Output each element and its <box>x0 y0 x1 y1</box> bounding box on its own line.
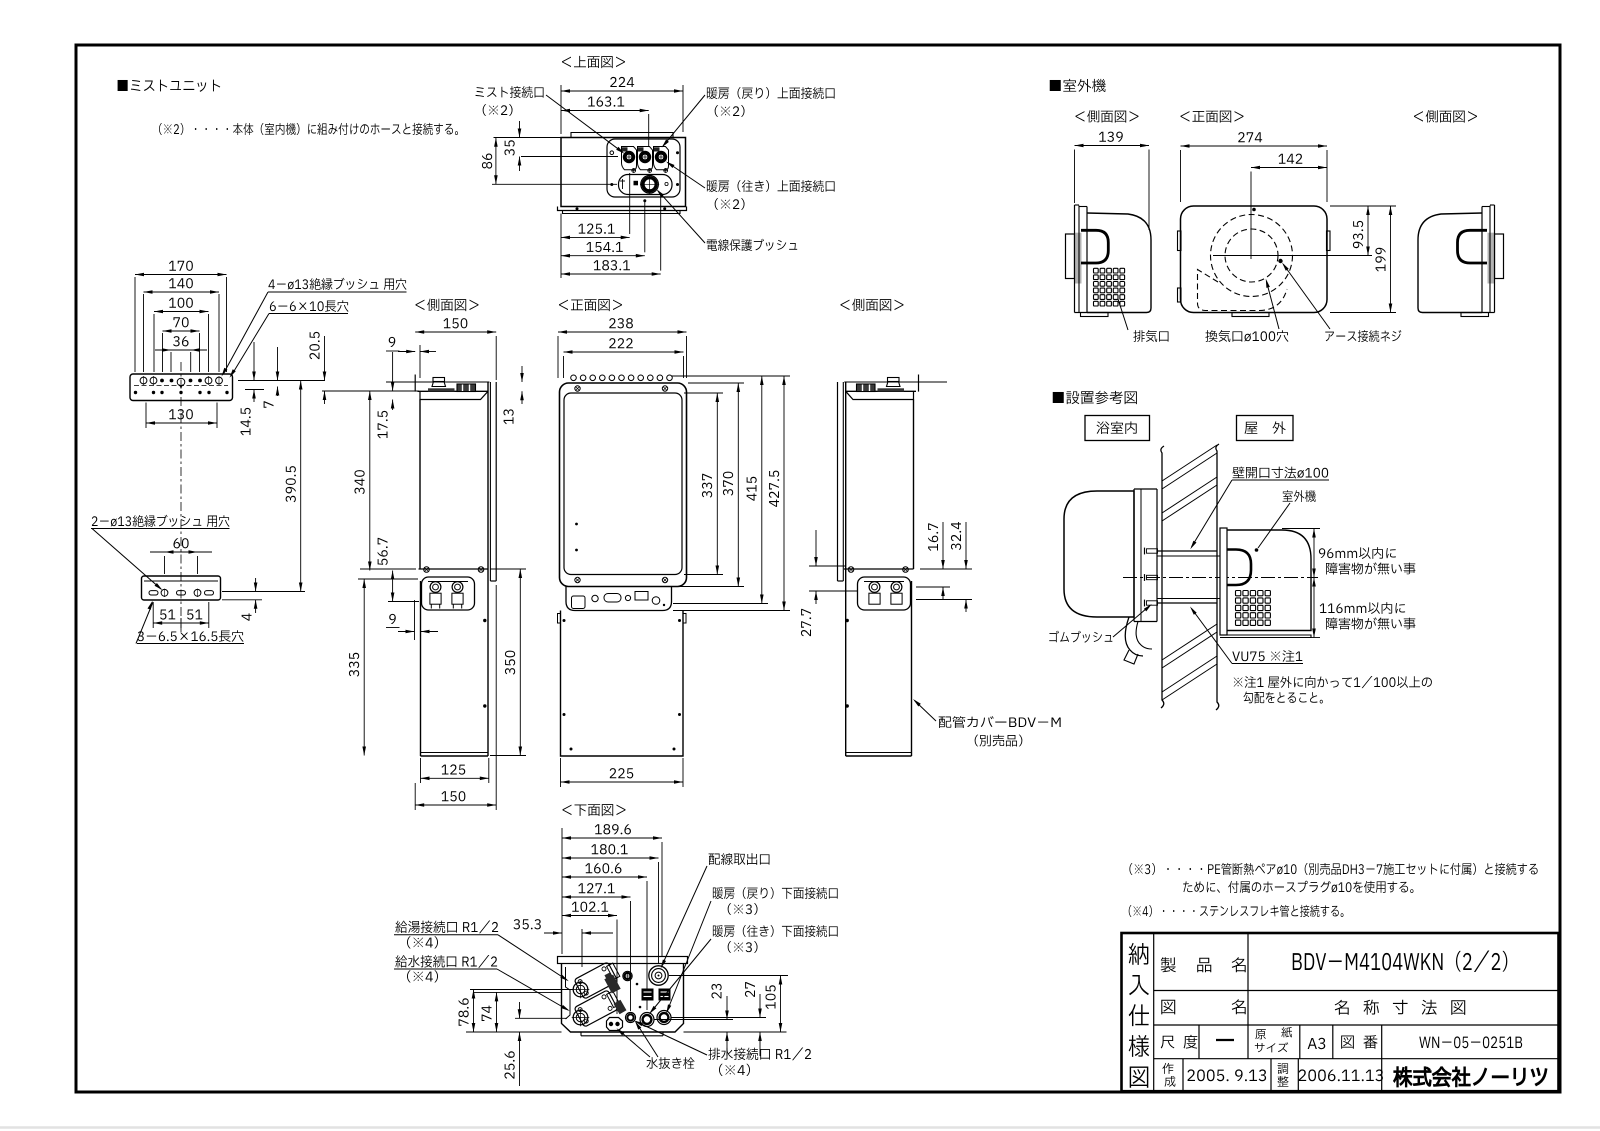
dim 56.7 <box>392 571 394 602</box>
black square ports (heater) <box>642 989 654 1001</box>
outdoor left body outline <box>1087 213 1151 313</box>
title block left strip divider <box>1153 933 1155 1091</box>
value: name and dimensions drawing <box>1335 1000 1349 1015</box>
outdoor left wall tab <box>1066 234 1075 279</box>
scanner edge line at page bottom <box>0 1126 1600 1129</box>
bracket top-view body <box>130 374 233 401</box>
label: drawing number <box>1341 1035 1354 1048</box>
label hot water connection R1/2 (*4) <box>395 921 498 934</box>
label wall opening size dia100 <box>1232 467 1328 479</box>
dim 7 <box>277 347 279 381</box>
extension line to 390.5 dim <box>222 591 305 593</box>
side view body top plate <box>418 390 489 392</box>
note (*2): connect to hose fitted to main indoor unit <box>159 123 458 135</box>
label: drawing name <box>1161 1000 1175 1015</box>
box label: inside bathroom <box>1085 416 1150 441</box>
front cover side bumps and screws <box>558 614 561 624</box>
section header: installation reference <box>1053 391 1137 404</box>
front bottom cover <box>561 611 684 757</box>
label drain connection R1/2 (*4) <box>708 1048 811 1061</box>
mist unit back plate <box>1133 489 1135 622</box>
note 1 text <box>1234 676 1432 688</box>
bottom dim extension lines <box>561 828 563 954</box>
drain plug hex <box>607 1018 623 1031</box>
dim 20.5 <box>324 336 326 381</box>
value: product name BDV-M4104WKN(2/2) <box>1293 950 1508 972</box>
lower bracket slots and holes <box>149 591 158 595</box>
right side rear rail <box>842 382 844 581</box>
outdoor unit in reference - back plate <box>1220 528 1227 635</box>
bottom view flange <box>558 957 688 964</box>
leader wire bushing <box>658 191 705 243</box>
outdoor front foot <box>1232 313 1269 317</box>
label earth connection screw <box>1325 330 1401 342</box>
outdoor front side tabs <box>1178 231 1182 251</box>
outdoor right foot <box>1461 313 1489 317</box>
front corner screws <box>575 386 580 391</box>
label vent opening dia 100 hole <box>1205 330 1288 342</box>
dim 14.5 <box>253 342 255 381</box>
label: heater supply top connection (*2) <box>707 180 835 192</box>
outdoor unit in reference - body <box>1227 530 1311 631</box>
outdoor right wall plate with gray edge <box>1488 233 1495 284</box>
bottom left extension lines <box>470 989 573 991</box>
bottom dim 102.1 <box>562 915 617 917</box>
bracket dim 100 <box>154 311 209 313</box>
value: A3 <box>1308 1038 1326 1049</box>
front dim 427.5 <box>783 376 785 611</box>
VU75 pipe <box>1157 555 1220 557</box>
title block row3 dividers <box>1198 1025 1200 1059</box>
fan scroll volute dashed outline <box>1198 270 1288 311</box>
top view face plate <box>607 139 680 197</box>
dim 25.6 <box>519 1002 521 1018</box>
pipe cover screws <box>483 619 486 622</box>
bracket fold dashed line <box>134 385 228 387</box>
hot water valve assembly <box>574 960 621 999</box>
dim 125.1 <box>561 236 630 238</box>
outdoor left wall plate with gray edge <box>1075 233 1082 284</box>
wall section right edge <box>1216 444 1219 710</box>
mist unit body (in wall section) <box>1064 491 1134 617</box>
dim 163.1 <box>561 110 649 112</box>
right side body outline upper <box>846 391 914 399</box>
right side body top plate <box>846 390 916 392</box>
dim 86 vertical <box>495 138 497 185</box>
top connector (cable) <box>457 384 476 392</box>
label: mist connection port (*2) <box>476 86 544 98</box>
mist connector dark block <box>603 971 621 993</box>
front dim 337 <box>716 393 718 575</box>
wiring outlet port (large double circle) <box>649 966 668 985</box>
bottom dim 189.6 <box>562 837 662 839</box>
front dim 222 <box>564 351 684 353</box>
bottom view title <box>562 804 625 816</box>
small port left of wiring outlet <box>623 971 632 980</box>
dim 390.5 <box>300 381 302 592</box>
dim 154.1 <box>561 255 645 257</box>
right side plate right lip <box>918 375 920 392</box>
dim 224 top width <box>561 90 683 92</box>
outdoor right handle <box>1458 230 1488 263</box>
right side dim 27.7 <box>815 530 817 566</box>
label VU75 note1 <box>1232 650 1302 662</box>
dim 335 <box>363 579 365 756</box>
label: heater return top connection (*2) <box>707 87 835 99</box>
title block vertical divider rows1-2 <box>1247 933 1249 1059</box>
dim 150 bottom <box>415 804 496 806</box>
reference line bracket to side view (lower) <box>322 390 419 392</box>
cable protection bushing port <box>641 176 659 194</box>
outdoor left foot <box>1081 313 1109 317</box>
dim 9 lower <box>389 614 396 624</box>
bottom ports row <box>626 1013 636 1023</box>
cold water valve assembly <box>574 988 621 1027</box>
outdoor unit in reference - grille <box>1236 591 1241 596</box>
outdoor dim 274 <box>1181 145 1328 147</box>
value: WN-05-0251B <box>1419 1036 1522 1048</box>
label: original paper size <box>1255 1029 1265 1039</box>
lower bracket dim 51+51 <box>153 622 209 624</box>
label wiring outlet <box>709 853 770 865</box>
cold water port circle <box>573 1010 588 1025</box>
outdoor right body outline <box>1418 213 1482 313</box>
front small dots <box>575 523 578 526</box>
label 3-6.5x16.5 slots <box>138 630 244 642</box>
value: creation date <box>1187 1069 1266 1081</box>
dim 35 vertical <box>519 121 521 138</box>
label: created <box>1162 1063 1173 1074</box>
bottom view inner step <box>566 967 571 1019</box>
bottom dim 127.1 <box>562 896 631 898</box>
bracket dim 130 <box>146 422 217 424</box>
front dim 415 <box>761 376 763 604</box>
bottom dim 160.6 <box>562 876 647 878</box>
label cold water connection R1/2 (*4) <box>395 955 497 968</box>
flange screws <box>424 567 430 573</box>
outdoor dim 142 <box>1251 167 1327 169</box>
title block outer frame <box>1122 933 1559 1091</box>
pipe connector block <box>422 577 475 610</box>
top view body outline <box>561 138 686 207</box>
title block row lines <box>1154 990 1559 992</box>
dim 125 bottom <box>421 777 489 779</box>
top view rear plate <box>571 133 673 138</box>
bottom dim 35.3 <box>544 932 562 934</box>
leader to mist port <box>546 95 623 152</box>
bracket lower hole dots <box>134 391 137 394</box>
pipe cover (lower body) <box>420 581 422 756</box>
outdoor right wall tab <box>1495 234 1504 279</box>
outdoor left side view title <box>1075 110 1138 122</box>
bottom right extension lines <box>669 975 788 977</box>
outdoor unit in reference - bottom plate <box>1220 635 1311 638</box>
lower bracket dim 60 <box>150 551 212 553</box>
front inner panel <box>564 393 682 575</box>
label: wire protection bushing <box>707 239 797 251</box>
label: adjusted <box>1278 1063 1289 1074</box>
left side view title <box>415 299 478 311</box>
label outdoor unit <box>1283 490 1316 502</box>
bottom dim 180.1 <box>562 857 659 859</box>
duct hole through wall <box>1157 550 1217 552</box>
mounting bolts <box>1147 549 1158 553</box>
dim 183.1 <box>561 273 661 275</box>
outdoor left handle <box>1081 230 1108 263</box>
side view body outline upper <box>420 391 488 399</box>
dim 96mm clearance <box>1313 529 1315 578</box>
bracket dim 140 <box>144 291 220 293</box>
front lower connection band <box>566 587 672 611</box>
outdoor right side view title <box>1414 110 1477 122</box>
note (*3) <box>1129 863 1537 875</box>
screw dots on face plate <box>610 151 614 155</box>
note (*4) <box>1129 905 1344 917</box>
bracket holes row <box>140 377 147 384</box>
company name: Noritz Corporation <box>1394 1067 1547 1087</box>
dim 105 <box>780 976 782 1033</box>
outdoor front body <box>1181 206 1328 313</box>
label heater return bottom connection (*3) <box>713 887 838 899</box>
small black square marker <box>634 181 639 186</box>
leader heater supply <box>668 163 706 189</box>
bracket centerline <box>180 362 182 632</box>
label 2-dia13 bushing holes <box>92 515 230 527</box>
right side wall bracket plate line <box>844 381 947 383</box>
vertical text: delivery specification drawing <box>1129 943 1149 965</box>
front dim 225 <box>561 781 684 783</box>
side view rear rail <box>489 382 491 581</box>
lower bracket body <box>142 576 221 600</box>
side dim 150 top <box>415 331 496 333</box>
front view title <box>559 299 622 311</box>
side view wall bracket plate line <box>386 381 489 383</box>
label: product name <box>1161 957 1176 972</box>
earth screw dot <box>1278 259 1282 263</box>
section header: outdoor unit <box>1050 79 1106 92</box>
fan center horizontal line <box>1213 255 1372 257</box>
outdoor front view title <box>1180 111 1243 123</box>
outdoor dim 139 <box>1075 145 1150 147</box>
label exhaust outlet <box>1118 299 1128 330</box>
front dim 370 <box>737 383 739 587</box>
title block row4 dividers <box>1182 1059 1184 1092</box>
label: scale <box>1161 1036 1175 1049</box>
dim 23 <box>726 996 728 1020</box>
dim 78.6 <box>473 990 475 1033</box>
top view title <box>562 56 625 68</box>
extension lines left of side view <box>360 568 416 570</box>
fan center vertical line <box>1250 172 1252 260</box>
wall section left edge <box>1161 446 1164 708</box>
side dim 9 top <box>389 337 396 347</box>
right side pipe cover <box>911 581 913 756</box>
right side view title <box>840 299 903 311</box>
dim 17.5 <box>392 352 394 391</box>
value: adjustment date <box>1299 1069 1383 1081</box>
right side dim 32.4 <box>965 522 967 569</box>
dim 4 <box>255 578 257 592</box>
label pipe cover BDV-M (sold separately) <box>915 701 937 722</box>
outdoor dim 93.5 <box>1367 206 1369 256</box>
label 4-dia13 bushing holes <box>268 278 406 290</box>
dim 27 <box>759 994 761 1018</box>
bracket dim 36 <box>155 349 207 351</box>
side view plate left lip <box>414 375 416 392</box>
top view bottom flange <box>558 207 687 211</box>
center line <box>1123 577 1318 579</box>
dim 350 <box>519 569 521 756</box>
dim 13 offset <box>521 366 523 382</box>
label rubber bushing <box>1049 631 1112 643</box>
bottom view body outline <box>562 964 684 1033</box>
right side flange screws <box>903 567 909 573</box>
outdoor unit in reference - handle <box>1227 550 1251 586</box>
section header: mist unit <box>118 80 221 92</box>
three top connection ports <box>622 147 637 170</box>
outdoor dim 199 <box>1390 206 1392 313</box>
label 6-6x10 slots <box>270 300 349 312</box>
label heater supply bottom connection (*3) <box>713 925 838 937</box>
leader heater return <box>663 95 705 146</box>
hot water port circle <box>573 982 588 997</box>
fan scroll dashed circles <box>1211 215 1293 297</box>
cable bushing oblong <box>619 175 673 195</box>
body/pipe-cover transition line <box>419 568 489 570</box>
top connector (mist) <box>432 382 446 387</box>
wall hatching <box>1162 445 1217 481</box>
label water drain plugs <box>646 1057 694 1069</box>
reference line bracket to side view (top) <box>238 380 325 382</box>
bottom cover lip below body <box>580 1032 582 1036</box>
dim 116mm clearance <box>1313 578 1315 638</box>
right side dim 16.7 <box>942 522 944 569</box>
front dim 238 <box>558 331 687 333</box>
front top vent holes <box>571 375 577 381</box>
value: scale dash <box>1216 1039 1234 1041</box>
outdoor left exhaust grille <box>1094 268 1099 273</box>
rubber bushing hose <box>1125 617 1143 656</box>
front outer panel <box>560 383 687 587</box>
dim 74 <box>496 992 498 1032</box>
bracket dim 70 <box>163 330 200 332</box>
bracket dim 170 <box>135 274 227 276</box>
outdoor front top dot <box>1252 208 1256 212</box>
box label: outdoors <box>1237 416 1294 441</box>
right side pipe connector block <box>858 577 911 610</box>
dim 340 <box>369 391 371 571</box>
right side top connectors <box>887 382 901 387</box>
